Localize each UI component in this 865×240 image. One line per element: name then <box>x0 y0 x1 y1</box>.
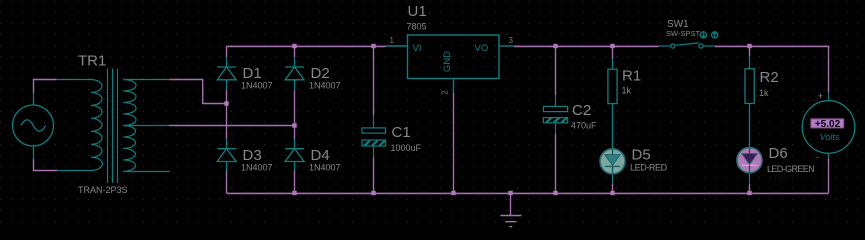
wire bottom ground rail <box>227 192 829 194</box>
wire R1 top <box>612 46 614 59</box>
svg-text:VO: VO <box>475 43 489 54</box>
wire R2 top <box>749 46 751 56</box>
junction C2 to VO rail <box>553 44 557 48</box>
svg-text:<TEXT>: <TEXT> <box>767 174 801 184</box>
ground <box>500 193 521 227</box>
junction ground symbol to ground rail <box>508 191 512 195</box>
svg-text:1000uF: 1000uF <box>391 143 422 153</box>
capacitor C1 <box>362 116 386 158</box>
transformer TR1 <box>57 69 170 184</box>
junction R2 to switched rail <box>747 44 751 48</box>
svg-text:2: 2 <box>441 90 450 95</box>
svg-text:-: - <box>816 152 819 162</box>
wire C1 column <box>373 46 375 193</box>
resistor R2 <box>745 56 754 148</box>
svg-text:Volts: Volts <box>820 132 840 142</box>
junction D6 to ground rail <box>747 191 751 195</box>
wire ac-bottom to TR1 primary pin 2 <box>34 159 58 171</box>
wire voltmeter negative to ground rail <box>828 158 830 193</box>
svg-text:+5.02: +5.02 <box>815 119 841 130</box>
junction TR1 top to D1-D3 node <box>224 101 228 105</box>
svg-text:D3: D3 <box>243 147 262 164</box>
led D6 <box>737 148 762 184</box>
svg-text:1k: 1k <box>759 88 769 98</box>
svg-text:GND: GND <box>442 51 453 72</box>
wire top rail VI net <box>227 45 386 47</box>
svg-text:TR1: TR1 <box>78 53 106 70</box>
diode D4 <box>285 139 304 171</box>
junction U1 GND to ground rail <box>451 191 455 195</box>
junction C1 to ground rail <box>371 191 375 195</box>
led D5 <box>600 149 625 184</box>
junction C1 to top rail <box>371 44 375 48</box>
svg-text:1N4007: 1N4007 <box>309 163 341 173</box>
diode D3 <box>217 139 236 171</box>
svg-text:1k: 1k <box>622 86 632 96</box>
wire TR1 secondary top to bridge node D1-D3 <box>169 80 226 104</box>
junction C2 to ground rail <box>553 191 557 195</box>
svg-text:D2: D2 <box>311 65 330 82</box>
diode D2 <box>285 57 304 90</box>
wire D2 anode-cathode column <box>294 46 296 193</box>
svg-text:TRAN-2P3S: TRAN-2P3S <box>78 185 128 195</box>
svg-text:D4: D4 <box>311 147 330 164</box>
svg-text:U1: U1 <box>408 3 427 20</box>
svg-text:D1: D1 <box>243 65 262 82</box>
svg-text:D5: D5 <box>632 147 651 164</box>
wire D6 cathode to ground rail <box>749 184 751 193</box>
svg-text:R1: R1 <box>622 68 641 85</box>
wire top rail VO net <box>514 45 829 47</box>
svg-text:LED-GREEN: LED-GREEN <box>767 164 814 174</box>
svg-text:3: 3 <box>509 36 514 45</box>
svg-text:7805: 7805 <box>407 22 427 32</box>
capacitor C2 <box>543 95 567 134</box>
junction D2 cathode to top rail <box>292 44 296 48</box>
wire TR1 center tap to bridge node D2-D4 <box>169 125 296 127</box>
svg-text:1N4007: 1N4007 <box>309 81 341 91</box>
regulator U1 7805 <box>386 35 514 93</box>
svg-text:1N4007: 1N4007 <box>241 163 273 173</box>
junction center tap to D2-D4 node <box>292 123 296 127</box>
wire D5 cathode to ground rail <box>612 184 614 193</box>
wire voltmeter positive drop <box>828 46 830 92</box>
switch SW1 toggle arrows <box>700 32 718 38</box>
junction D5 to ground rail <box>610 191 614 195</box>
svg-text:C1: C1 <box>392 124 411 141</box>
ac source <box>13 93 54 159</box>
svg-text:1N4007: 1N4007 <box>241 81 273 91</box>
junction D4 anode to ground rail <box>292 191 296 195</box>
wire U1 GND pin to ground rail <box>453 93 455 193</box>
svg-text:+: + <box>818 91 823 101</box>
wire C2 column <box>555 46 557 193</box>
svg-text:470uF: 470uF <box>571 121 597 131</box>
svg-text:LED-RED: LED-RED <box>630 163 668 173</box>
junction R1 to VO rail <box>610 44 614 48</box>
wire ac-top to TR1 primary pin 1 <box>34 80 57 94</box>
svg-text:VI: VI <box>413 43 422 54</box>
wire D1 anode-cathode column <box>226 46 228 193</box>
svg-text:SW-SPST: SW-SPST <box>666 29 700 38</box>
diode D1 <box>217 57 236 90</box>
voltmeter <box>802 93 855 159</box>
switch SW1 <box>659 43 715 48</box>
svg-text:R2: R2 <box>760 69 779 86</box>
svg-text:D6: D6 <box>769 145 788 162</box>
svg-text:C2: C2 <box>572 102 591 119</box>
resistor R1 <box>608 59 617 149</box>
svg-text:<TEXT>: <TEXT> <box>635 173 669 183</box>
svg-text:1: 1 <box>390 36 395 45</box>
